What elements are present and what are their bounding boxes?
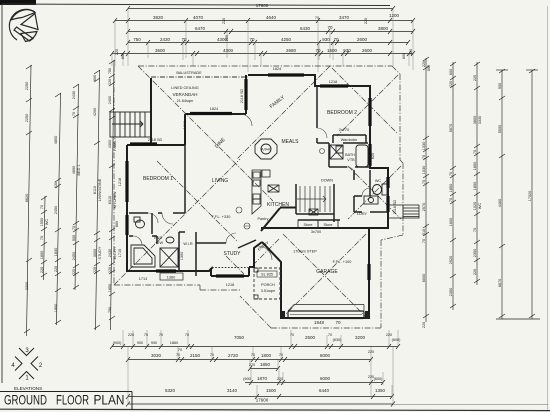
svg-text:2570: 2570 xyxy=(422,203,426,211)
svg-text:4250: 4250 xyxy=(281,37,292,42)
svg-text:3.51sqm: 3.51sqm xyxy=(261,289,276,293)
svg-text:1800: 1800 xyxy=(40,251,44,259)
svg-text:2500: 2500 xyxy=(305,335,316,340)
svg-text:2118 SD: 2118 SD xyxy=(393,199,397,214)
svg-text:750: 750 xyxy=(133,37,141,42)
svg-text:1020: 1020 xyxy=(473,202,477,210)
svg-text:600: 600 xyxy=(121,53,125,59)
svg-text:4070: 4070 xyxy=(193,15,204,20)
svg-text:6440: 6440 xyxy=(319,388,330,393)
svg-text:6000: 6000 xyxy=(320,376,331,381)
svg-text:220: 220 xyxy=(473,75,477,81)
svg-text:1824: 1824 xyxy=(273,67,281,71)
svg-text:70: 70 xyxy=(251,353,255,357)
svg-text:510: 510 xyxy=(422,229,426,235)
svg-text:70: 70 xyxy=(144,333,148,337)
svg-text:1330: 1330 xyxy=(422,142,426,150)
svg-text:70: 70 xyxy=(72,226,76,230)
svg-text:70: 70 xyxy=(178,348,182,352)
svg-text:220: 220 xyxy=(422,322,426,328)
svg-text:70: 70 xyxy=(279,353,283,357)
svg-text:1715: 1715 xyxy=(118,249,122,257)
svg-text:70: 70 xyxy=(315,16,319,20)
svg-text:220: 220 xyxy=(93,267,97,273)
svg-text:1030: 1030 xyxy=(422,166,426,174)
svg-text:1218: 1218 xyxy=(226,283,234,287)
svg-text:BEDROOM 1: BEDROOM 1 xyxy=(143,176,173,182)
svg-text:3000: 3000 xyxy=(93,249,97,257)
svg-text:LIVING: LIVING xyxy=(212,178,229,184)
svg-text:2x770: 2x770 xyxy=(339,128,349,132)
svg-text:860: 860 xyxy=(115,221,119,227)
svg-text:70: 70 xyxy=(210,353,214,357)
svg-text:220: 220 xyxy=(225,35,229,41)
svg-text:2400: 2400 xyxy=(108,96,112,104)
svg-text:2450: 2450 xyxy=(54,206,58,214)
svg-text:(630): (630) xyxy=(333,338,343,342)
svg-text:STUDY: STUDY xyxy=(224,251,242,257)
svg-text:7050: 7050 xyxy=(234,335,245,340)
svg-text:2118 SD: 2118 SD xyxy=(240,88,244,103)
svg-text:2600: 2600 xyxy=(357,37,368,42)
svg-text:220: 220 xyxy=(364,18,368,24)
svg-text:220: 220 xyxy=(108,267,112,273)
svg-text:1218: 1218 xyxy=(118,178,122,186)
svg-text:1850: 1850 xyxy=(260,362,271,367)
svg-text:SL 835: SL 835 xyxy=(261,273,273,277)
svg-text:4890: 4890 xyxy=(72,166,76,174)
svg-text:2450: 2450 xyxy=(72,252,76,260)
svg-text:70: 70 xyxy=(422,155,426,159)
svg-text:FLOOR: FLOOR xyxy=(56,392,89,408)
svg-text:Wardrobe: Wardrobe xyxy=(341,138,358,142)
svg-text:3x700: 3x700 xyxy=(311,230,321,234)
svg-text:1600: 1600 xyxy=(449,218,453,226)
svg-text:4200: 4200 xyxy=(93,108,97,116)
svg-text:600: 600 xyxy=(402,53,406,59)
svg-text:2430: 2430 xyxy=(160,37,171,42)
svg-text:1500: 1500 xyxy=(266,388,277,393)
svg-text:750: 750 xyxy=(108,307,112,313)
svg-text:70: 70 xyxy=(72,112,76,116)
svg-text:W.I.R: W.I.R xyxy=(183,242,193,246)
svg-text:6470: 6470 xyxy=(195,26,206,31)
svg-text:LIVING/DINE: LIVING/DINE xyxy=(98,178,102,201)
svg-text:1850: 1850 xyxy=(54,304,58,312)
svg-text:3820: 3820 xyxy=(153,15,164,20)
svg-text:220: 220 xyxy=(108,79,112,85)
svg-text:220: 220 xyxy=(54,266,58,272)
svg-text:2350: 2350 xyxy=(449,288,453,296)
svg-text:BEDROOM 2: BEDROOM 2 xyxy=(327,110,357,116)
svg-text:220: 220 xyxy=(277,377,283,381)
svg-text:1200: 1200 xyxy=(389,13,400,18)
svg-text:WC: WC xyxy=(478,203,482,210)
svg-text:17600: 17600 xyxy=(256,3,269,8)
svg-text:3140: 3140 xyxy=(227,388,238,393)
svg-text:1850: 1850 xyxy=(473,162,477,170)
svg-text:220: 220 xyxy=(249,363,255,367)
svg-text:GARAGE: GARAGE xyxy=(316,269,338,275)
svg-text:220: 220 xyxy=(473,269,477,275)
svg-text:70: 70 xyxy=(422,180,426,184)
svg-text:70: 70 xyxy=(327,25,333,30)
svg-text:KITCHEN: KITCHEN xyxy=(267,202,289,208)
svg-text:3800: 3800 xyxy=(378,26,389,31)
svg-text:21.64sqm: 21.64sqm xyxy=(177,99,194,103)
svg-text:DOWN: DOWN xyxy=(321,179,333,183)
svg-text:5320: 5320 xyxy=(165,388,176,393)
svg-text:70: 70 xyxy=(315,48,321,53)
svg-text:900: 900 xyxy=(137,341,143,345)
svg-text:170mm STEP: 170mm STEP xyxy=(293,250,317,254)
svg-text:4300: 4300 xyxy=(108,140,112,148)
svg-text:220: 220 xyxy=(409,49,413,55)
svg-text:1860: 1860 xyxy=(170,341,178,345)
svg-text:3600: 3600 xyxy=(155,48,166,53)
svg-text:900: 900 xyxy=(498,83,502,89)
svg-text:1350: 1350 xyxy=(375,388,386,393)
svg-text:BED 1: BED 1 xyxy=(77,165,81,176)
svg-text:70: 70 xyxy=(473,150,477,154)
svg-text:3330: 3330 xyxy=(478,116,482,124)
svg-text:220: 220 xyxy=(128,333,134,337)
svg-text:1360: 1360 xyxy=(167,276,175,280)
svg-text:Store: Store xyxy=(323,223,332,227)
svg-text:220: 220 xyxy=(449,81,453,87)
svg-text:70: 70 xyxy=(176,353,180,357)
svg-text:F.F.L. +330: F.F.L. +330 xyxy=(212,215,231,219)
svg-text:6000: 6000 xyxy=(422,274,426,282)
svg-text:Store: Store xyxy=(303,223,312,227)
svg-text:600: 600 xyxy=(93,75,97,81)
svg-text:LINED CEILING: LINED CEILING xyxy=(171,86,198,90)
svg-text:600: 600 xyxy=(449,69,453,75)
svg-text:930: 930 xyxy=(322,37,330,42)
svg-text:6670: 6670 xyxy=(498,279,502,287)
svg-text:70: 70 xyxy=(40,205,44,209)
svg-text:2920: 2920 xyxy=(449,256,453,264)
svg-text:8000: 8000 xyxy=(320,353,331,358)
svg-text:PORCH: PORCH xyxy=(261,283,275,287)
svg-text:70: 70 xyxy=(40,236,44,240)
svg-text:(600): (600) xyxy=(392,338,402,342)
svg-text:3600: 3600 xyxy=(473,116,477,124)
svg-text:70: 70 xyxy=(449,198,453,202)
svg-text:WC: WC xyxy=(45,219,49,226)
svg-text:2600: 2600 xyxy=(362,48,373,53)
svg-text:MEALS: MEALS xyxy=(282,139,300,145)
svg-text:70: 70 xyxy=(422,239,426,243)
svg-text:4850: 4850 xyxy=(54,136,58,144)
svg-text:KITCHEN: KITCHEN xyxy=(113,191,117,208)
svg-text:17020: 17020 xyxy=(528,191,532,202)
svg-text:900: 900 xyxy=(72,235,76,241)
svg-text:BATH: BATH xyxy=(345,153,355,157)
svg-text:70: 70 xyxy=(335,320,341,325)
svg-text:220: 220 xyxy=(386,333,392,337)
svg-text:70: 70 xyxy=(181,37,187,42)
svg-text:220: 220 xyxy=(222,18,226,24)
svg-text:VERANDAH: VERANDAH xyxy=(172,92,197,97)
svg-text:220: 220 xyxy=(115,49,119,55)
svg-text:820: 820 xyxy=(371,153,375,159)
svg-text:2118 SD: 2118 SD xyxy=(148,138,163,142)
svg-text:Pantry: Pantry xyxy=(258,217,269,221)
svg-text:70: 70 xyxy=(333,37,339,42)
svg-text:ENS: ENS xyxy=(154,236,162,240)
svg-text:F.F.L. +100: F.F.L. +100 xyxy=(333,260,352,264)
svg-text:1850: 1850 xyxy=(473,182,477,190)
svg-text:4460: 4460 xyxy=(498,199,502,207)
svg-text:5670: 5670 xyxy=(449,124,453,132)
svg-text:1850: 1850 xyxy=(108,284,112,292)
svg-text:8110: 8110 xyxy=(93,186,97,194)
svg-text:1830: 1830 xyxy=(54,248,58,256)
svg-text:6430: 6430 xyxy=(300,26,311,31)
svg-text:LDRY: LDRY xyxy=(357,212,368,216)
svg-text:220: 220 xyxy=(72,269,76,275)
svg-text:3030: 3030 xyxy=(151,353,162,358)
svg-text:750: 750 xyxy=(108,68,112,74)
svg-text:(900): (900) xyxy=(113,341,123,345)
svg-text:930: 930 xyxy=(343,48,351,53)
svg-text:STUDY: STUDY xyxy=(98,246,102,259)
svg-text:+TW: +TW xyxy=(155,241,164,245)
svg-text:4300: 4300 xyxy=(223,48,234,53)
svg-text:600: 600 xyxy=(427,65,431,71)
svg-text:70: 70 xyxy=(249,37,255,42)
svg-text:900: 900 xyxy=(151,341,157,345)
svg-text:1300: 1300 xyxy=(180,252,184,260)
svg-text:2680: 2680 xyxy=(286,48,297,53)
svg-text:1218: 1218 xyxy=(329,80,337,84)
svg-text:VTB: VTB xyxy=(347,158,355,162)
svg-text:A/940: A/940 xyxy=(261,148,271,152)
svg-text:220: 220 xyxy=(422,61,426,67)
svg-text:ELEVATIONS: ELEVATIONS xyxy=(14,386,42,391)
svg-text:1870: 1870 xyxy=(257,376,268,381)
svg-text:70: 70 xyxy=(328,333,332,337)
svg-text:70: 70 xyxy=(290,333,294,337)
svg-text:WC: WC xyxy=(375,179,382,183)
svg-text:4640: 4640 xyxy=(266,15,277,20)
svg-text:8620: 8620 xyxy=(25,194,29,202)
svg-text:220: 220 xyxy=(368,350,374,354)
svg-text:220: 220 xyxy=(40,267,44,273)
svg-text:1850: 1850 xyxy=(449,184,453,192)
svg-text:3470: 3470 xyxy=(339,15,350,20)
svg-text:3200: 3200 xyxy=(355,335,366,340)
svg-text:70: 70 xyxy=(185,333,189,337)
svg-text:2150: 2150 xyxy=(190,353,201,358)
svg-text:2250: 2250 xyxy=(25,114,29,122)
svg-text:2350: 2350 xyxy=(473,249,477,257)
svg-text:FAMILY: FAMILY xyxy=(113,137,117,151)
svg-text:(600): (600) xyxy=(374,377,384,381)
svg-text:17600: 17600 xyxy=(256,398,269,403)
svg-text:70: 70 xyxy=(159,333,163,337)
svg-text:1824: 1824 xyxy=(210,107,218,111)
svg-text:220: 220 xyxy=(54,182,58,188)
svg-text:5590: 5590 xyxy=(498,125,502,133)
svg-text:2430: 2430 xyxy=(72,91,76,99)
svg-text:70: 70 xyxy=(449,172,453,176)
svg-text:1800: 1800 xyxy=(261,353,272,358)
svg-text:1948: 1948 xyxy=(314,320,325,325)
svg-text:GROUND: GROUND xyxy=(4,392,47,408)
svg-text:1218: 1218 xyxy=(183,121,187,129)
svg-text:6310: 6310 xyxy=(108,196,112,204)
svg-text:(600: (600 xyxy=(243,377,251,381)
svg-text:ENTRY: ENTRY xyxy=(113,246,117,259)
svg-text:2430: 2430 xyxy=(108,249,112,257)
svg-text:3300: 3300 xyxy=(25,282,29,290)
svg-text:PLAN: PLAN xyxy=(94,392,125,408)
svg-text:BALUSTRADE: BALUSTRADE xyxy=(176,71,202,75)
svg-text:2250: 2250 xyxy=(25,82,29,90)
svg-text:2720: 2720 xyxy=(228,353,239,358)
svg-text:70: 70 xyxy=(473,228,477,232)
svg-text:1500: 1500 xyxy=(327,48,338,53)
svg-text:1713: 1713 xyxy=(139,277,147,281)
svg-text:1550: 1550 xyxy=(40,218,44,226)
